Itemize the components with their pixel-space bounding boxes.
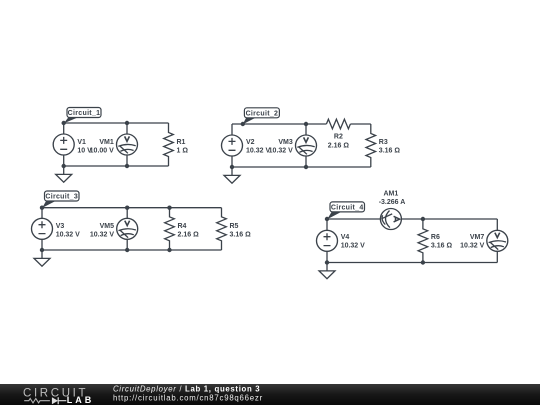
svg-text:V3: V3 bbox=[56, 223, 65, 230]
wire V1 branch bbox=[63, 123, 65, 166]
svg-text:VM5: VM5 bbox=[100, 223, 115, 230]
footer bar bbox=[0, 384, 540, 405]
logo diode bbox=[52, 397, 58, 404]
svg-text:VM3: VM3 bbox=[278, 139, 293, 146]
svg-text:10.32 V: 10.32 V bbox=[460, 242, 484, 249]
wire VM1 branch bbox=[126, 123, 128, 166]
wire V2 branch bbox=[231, 124, 233, 167]
junction VM1 bottom bbox=[125, 164, 129, 168]
resistor R6 bbox=[418, 219, 452, 263]
svg-text:Circuit_3: Circuit_3 bbox=[45, 194, 78, 201]
svg-text:Circuit_2: Circuit_2 bbox=[246, 110, 279, 117]
wire top rail C4 bbox=[327, 218, 497, 220]
junction V2 bottom / ground node bbox=[230, 165, 234, 169]
resistor R3 bbox=[366, 124, 400, 167]
svg-text:CircuitDeployer / Lab 1, quest: CircuitDeployer / Lab 1, question 3 bbox=[113, 384, 260, 393]
junction V4 bottom / ground node bbox=[325, 260, 329, 264]
junction VM5 bottom bbox=[125, 248, 129, 252]
svg-text:3.16 Ω: 3.16 Ω bbox=[431, 242, 453, 249]
svg-text:10.32 V: 10.32 V bbox=[56, 232, 80, 239]
svg-text:1 Ω: 1 Ω bbox=[177, 147, 189, 154]
ground C4 bbox=[319, 263, 335, 279]
junction R4 bottom bbox=[167, 248, 171, 252]
ground C2 bbox=[224, 167, 240, 183]
junction V1 bottom / ground node bbox=[62, 164, 66, 168]
resistor R1 bbox=[164, 123, 189, 166]
node tag Circuit_2 bbox=[243, 108, 280, 125]
svg-text:3.16 Ω: 3.16 Ω bbox=[230, 232, 252, 239]
svg-text:10.32 V: 10.32 V bbox=[269, 147, 293, 154]
voltmeter VM7 bbox=[460, 230, 508, 251]
svg-text:2.16 Ω: 2.16 Ω bbox=[178, 232, 200, 239]
junction R4 top bbox=[167, 206, 171, 210]
voltmeter VM5 bbox=[90, 218, 138, 239]
junction C2 tag attach node bbox=[241, 122, 245, 126]
ground C1 bbox=[56, 166, 72, 182]
wire VM7 branch bbox=[496, 219, 498, 263]
voltmeter VM1 bbox=[90, 134, 138, 155]
junction V3 bottom / ground node bbox=[40, 248, 44, 252]
junction R6 top bbox=[421, 217, 425, 221]
svg-text:10.32 V: 10.32 V bbox=[90, 232, 114, 239]
wire VM5 branch bbox=[126, 208, 128, 250]
voltage source V3 bbox=[32, 218, 81, 239]
wire top rail C1 bbox=[64, 122, 169, 124]
svg-text:VM7: VM7 bbox=[470, 234, 485, 241]
wire bottom rail C1 bbox=[64, 165, 169, 167]
voltage source V1 bbox=[53, 134, 92, 155]
junction C4 top-left node bbox=[325, 217, 329, 221]
resistor R2 bbox=[326, 119, 350, 149]
node tag Circuit_1 bbox=[64, 108, 101, 124]
junction R6 bottom bbox=[421, 260, 425, 264]
svg-text:V1: V1 bbox=[77, 139, 86, 146]
wire top rail C2 right bbox=[350, 123, 370, 125]
svg-text:Circuit_4: Circuit_4 bbox=[331, 204, 364, 211]
svg-text:http://circuitlab.com/cn87c98q: http://circuitlab.com/cn87c98q66ezr bbox=[113, 393, 263, 402]
wire V4 branch bbox=[326, 219, 328, 263]
node tag Circuit_3 bbox=[42, 191, 79, 208]
ground C3 bbox=[34, 250, 50, 266]
resistor R5 bbox=[217, 208, 251, 250]
ammeter AM1 bbox=[379, 191, 406, 230]
svg-text:VM1: VM1 bbox=[99, 139, 114, 146]
wire top rail C2 left bbox=[232, 123, 326, 125]
junction C3 top-left node bbox=[40, 206, 44, 210]
svg-text:R1: R1 bbox=[177, 139, 186, 146]
svg-text:V4: V4 bbox=[341, 234, 350, 241]
junction C1 top-left node bbox=[62, 121, 66, 125]
svg-text:10.32 V: 10.32 V bbox=[341, 242, 365, 249]
wire VM3 branch bbox=[305, 124, 307, 167]
node tag Circuit_4 bbox=[327, 202, 364, 219]
logo resistor zigzag bbox=[24, 399, 50, 403]
svg-text:-3.266 A: -3.266 A bbox=[379, 199, 406, 206]
wire top rail C3 bbox=[42, 207, 222, 209]
wire bottom rail C3 bbox=[42, 249, 222, 251]
svg-text:R3: R3 bbox=[379, 139, 388, 146]
wire bottom rail C2 bbox=[232, 166, 371, 168]
svg-text:10.00 V: 10.00 V bbox=[90, 147, 114, 154]
svg-text:R4: R4 bbox=[178, 223, 187, 230]
svg-text:R2: R2 bbox=[334, 134, 343, 141]
voltmeter VM3 bbox=[269, 135, 317, 156]
svg-text:AM1: AM1 bbox=[384, 191, 399, 198]
svg-text:LAB: LAB bbox=[67, 395, 95, 405]
wire V3 branch bbox=[41, 208, 43, 250]
svg-text:10.32 V: 10.32 V bbox=[246, 147, 270, 154]
voltage source V4 bbox=[317, 230, 366, 251]
svg-text:R6: R6 bbox=[431, 234, 440, 241]
resistor R4 bbox=[165, 208, 199, 250]
svg-text:R5: R5 bbox=[230, 223, 239, 230]
junction VM5 top bbox=[125, 206, 129, 210]
junction VM1 top bbox=[125, 121, 129, 125]
svg-text:V2: V2 bbox=[246, 139, 255, 146]
svg-text:Circuit_1: Circuit_1 bbox=[68, 110, 101, 117]
junction VM3 bottom bbox=[304, 165, 308, 169]
wire bottom rail C4 bbox=[327, 262, 497, 264]
svg-text:3.16 Ω: 3.16 Ω bbox=[379, 147, 401, 154]
voltage source V2 bbox=[222, 135, 271, 156]
junction VM3 top bbox=[304, 122, 308, 126]
svg-text:2.16 Ω: 2.16 Ω bbox=[328, 142, 350, 149]
